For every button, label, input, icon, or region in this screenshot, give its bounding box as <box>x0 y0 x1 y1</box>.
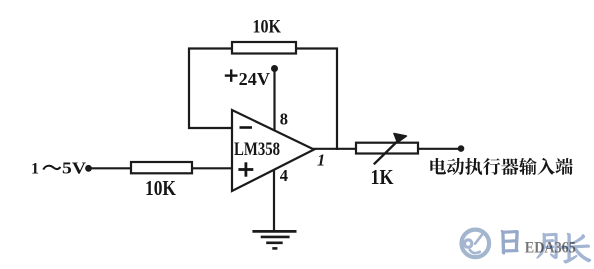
ground bar 1 <box>252 230 296 233</box>
op-amp non-inverting input plus sign <box>238 162 253 176</box>
wire: resistor R2 to op-amp + input <box>192 167 232 169</box>
watermark logo outer ring <box>462 230 490 258</box>
node: +24V supply dot <box>271 65 278 72</box>
svg-text:10K: 10K <box>145 176 177 200</box>
svg-text:8: 8 <box>280 110 288 129</box>
watermark logo bottom hook <box>470 250 480 253</box>
ground bar 3 <box>266 242 283 245</box>
wire: input dot to resistor R2 <box>89 167 133 169</box>
svg-text:LM358: LM358 <box>234 139 280 160</box>
watermark logo inner donut <box>465 240 472 247</box>
wire: pin 8 supply lead into op-amp top edge <box>273 69 275 132</box>
resistor R2 10K (input) body <box>131 162 192 173</box>
resistor R1 10K (feedback) body <box>232 42 296 54</box>
wire: feedback top left segment <box>188 47 233 49</box>
svg-text:10K: 10K <box>253 17 282 38</box>
svg-text:24V: 24V <box>239 69 270 89</box>
net label: 电动执行器输入端 (actuator input terminal) <box>430 158 572 175</box>
svg-text:1: 1 <box>31 161 39 178</box>
op-amp inverting input minus sign <box>240 126 253 129</box>
svg-text:5V: 5V <box>62 159 86 178</box>
svg-text:EDA365: EDA365 <box>525 240 576 257</box>
watermark character 日 <box>501 231 518 254</box>
tilde of 1~5V <box>43 166 60 170</box>
potentiometer wiper arrow shaft <box>374 139 400 164</box>
wire: pin 4 lead to ground <box>273 171 275 232</box>
op-amp U1 LM358 triangle <box>232 110 314 191</box>
ground bar 2 <box>261 236 290 239</box>
watermark character 月 <box>537 233 557 258</box>
node: input terminal dot <box>85 165 92 172</box>
wire: inverting input from feedback node to op-amp - input <box>188 127 232 129</box>
potentiometer RP 1K body <box>356 143 418 154</box>
svg-text:4: 4 <box>280 166 288 185</box>
wire: feedback left vertical <box>188 48 190 130</box>
svg-text:1: 1 <box>317 150 325 169</box>
wire: feedback right vertical down to output node <box>336 48 338 151</box>
watermark logo diagonal stroke <box>475 234 482 244</box>
svg-text:1K: 1K <box>371 165 394 189</box>
wire: feedback top right segment <box>295 47 338 49</box>
wire: op-amp output to potentiometer <box>313 148 357 150</box>
wire: potentiometer to output terminal <box>418 148 461 150</box>
watermark character 长 <box>560 233 590 263</box>
ground bar 4 <box>272 247 277 250</box>
label +24V plus sign <box>225 69 238 81</box>
potentiometer wiper arrowhead <box>394 134 406 143</box>
node: output terminal dot <box>458 145 465 152</box>
